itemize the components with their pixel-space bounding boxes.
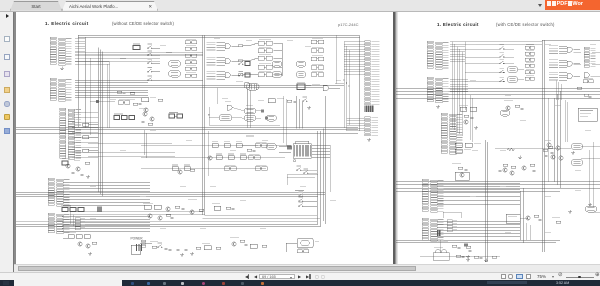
long bus lower B [16, 223, 318, 225]
CN3 stub wires [72, 111, 98, 113]
resistor R21 [196, 247, 201, 249]
p2 right verticals [553, 98, 555, 182]
resistor R27 [130, 92, 135, 94]
capacitor C11 [72, 172, 75, 173]
capacitor C7 [165, 248, 168, 249]
resistor R11 [247, 149, 252, 151]
p2 switch S5 [500, 79, 505, 82]
connector P2-CN3 tall [441, 113, 463, 154]
p2 vertical bundle [555, 81, 557, 101]
transistor P2Q7 [503, 168, 507, 172]
p2 resistor R9 [556, 221, 561, 223]
bottom cluster B1 [68, 235, 74, 239]
capacitor C5 [182, 208, 185, 209]
transistor Q1 [144, 108, 148, 112]
p2 box cluster [506, 214, 520, 223]
row input boxes [245, 62, 250, 66]
transistor P2Q1 [464, 120, 468, 124]
transistor Q4 [143, 112, 147, 116]
power connector PJ1 [131, 245, 141, 254]
svg-text:(with CE/DE selector switch): (with CE/DE selector switch) [496, 22, 555, 27]
switch S6 [303, 99, 308, 102]
capacitor C10 [123, 93, 126, 94]
part cluster P2: NOTE rows [74, 124, 81, 127]
stub stack bottom-left [141, 240, 146, 247]
loop wires lower [287, 174, 318, 176]
ground CN8 [367, 138, 371, 141]
relay RY9 [219, 115, 232, 121]
relay box B2 [258, 73, 272, 77]
boxes row under P1 [114, 116, 120, 120]
page 2 sheet [396, 11, 600, 265]
junction [208, 114, 209, 115]
switch S1 [148, 46, 153, 49]
capacitor C4 [142, 121, 145, 122]
transistor Q10 [232, 242, 236, 246]
CN5 drop [440, 240, 442, 253]
vertical bus pair [202, 36, 204, 215]
connector P2-CN2 [427, 77, 449, 103]
p2 capacitor C5 [533, 170, 536, 171]
resistor R1 [238, 45, 243, 47]
p2 relay RY6 [585, 206, 597, 212]
p2 capacitor C6 [539, 219, 542, 220]
gate wires [232, 108, 244, 111]
p2 resistor R10 [452, 245, 457, 247]
row wire B [141, 156, 285, 158]
loop connect right [205, 214, 317, 216]
relay box A1 [258, 41, 272, 45]
vertical wire x90 [89, 58, 91, 135]
p2 row group 2 [549, 59, 567, 67]
transistor Q6 [166, 207, 170, 211]
p2 resistor R14 [503, 164, 508, 166]
connector P2-CN4 [422, 179, 444, 212]
dark pins [261, 109, 264, 112]
scatter labels p2 [470, 43, 476, 46]
oval left wire [209, 117, 219, 119]
driver pair D2 [311, 49, 324, 53]
p2 resistor R3 [577, 87, 582, 89]
bus line 3 [16, 132, 358, 134]
J1 drop wire [329, 145, 331, 192]
resistor R18 [226, 207, 231, 209]
p2 ground B [588, 203, 592, 206]
lower band cluster L3 [214, 206, 221, 210]
row group 2 [207, 57, 226, 65]
p2 relay pair K6 [525, 77, 534, 80]
switch S2 [148, 53, 153, 56]
p2 vertical drops [525, 223, 527, 240]
relay pair RP1 [169, 114, 175, 118]
p2 capacitor C7 [458, 247, 461, 248]
p2 fan CN2 [450, 78, 468, 80]
p2 row group 1 [549, 45, 567, 54]
bus drops [216, 88, 218, 105]
relay box A2 [258, 49, 272, 53]
p2 oval RY4 wire left [495, 148, 571, 150]
resistor P2R1 [464, 115, 469, 117]
resistor R26 [117, 91, 122, 93]
bus cluster box [297, 84, 305, 90]
capacitor C1 [139, 103, 142, 104]
long bus lower A [16, 191, 325, 193]
switch S5 [148, 78, 153, 81]
mid vertical bus [77, 35, 79, 127]
left vertical bus [97, 48, 99, 193]
ground B3 [180, 253, 184, 256]
bottom wires [140, 242, 152, 244]
transistor P2Q2 [460, 173, 464, 177]
p2 switch S3 [500, 61, 505, 64]
p2 horizontal buses [396, 88, 600, 90]
p2 oval wires [518, 69, 524, 71]
p2 resistor R5 [548, 146, 553, 148]
transistor Q2 [208, 156, 212, 160]
p2 vertical bus left [451, 42, 453, 129]
switch S14 [239, 73, 244, 76]
p2 power unit box [578, 108, 597, 121]
p2 fan CN4 [437, 182, 520, 184]
resistor R12 [190, 169, 195, 171]
transistor Q11 [148, 214, 152, 218]
p2 relay RY5 [571, 160, 583, 166]
p2 vertical link right [588, 150, 590, 206]
mid pair M1 [255, 144, 267, 148]
p2 capacitor C10 [545, 155, 548, 156]
ground CN3c [86, 175, 90, 178]
capacitor P2C3 [521, 108, 524, 109]
mid link wires [88, 143, 172, 145]
resistor P2R2 [458, 167, 463, 169]
switch S10 [158, 245, 163, 248]
transistor Q13 [66, 164, 70, 168]
p2 box link [520, 217, 528, 219]
capacitor P2C2 [465, 169, 468, 170]
resistor R16 [175, 206, 180, 208]
p2 vertical right bus [484, 140, 486, 262]
row group 1 [207, 42, 226, 51]
resistor R28 [85, 162, 90, 164]
mid pair M2 [248, 156, 260, 160]
driver pair E2 [311, 73, 324, 77]
p2 oval out wires [581, 146, 600, 148]
transistor Q5 [150, 117, 154, 121]
transistor Q14 [76, 167, 80, 171]
loop under oval [209, 124, 280, 126]
resistor R23 [240, 240, 245, 242]
lower band cluster L1 [144, 205, 151, 209]
wire fan CN5 [62, 215, 150, 217]
J1 fan wires [312, 144, 330, 146]
relay contact K3 [185, 54, 197, 57]
border drop wire [335, 36, 337, 84]
p2 resistor R13 [543, 149, 548, 151]
svg-text:1. Electric circuit: 1. Electric circuit [437, 22, 479, 27]
p2 relay RY3 [500, 110, 510, 116]
transistor Q8 [78, 242, 82, 246]
p2 relay pair K3 [525, 58, 534, 61]
resistor R19 [92, 242, 97, 244]
nested loop right verticals [316, 131, 318, 224]
vertical pair mid-left [143, 130, 145, 155]
p2 gate G2 [567, 61, 572, 66]
CN6 bus vertical [343, 42, 345, 129]
p2 pair D3 [583, 80, 593, 83]
terminal row [62, 208, 68, 212]
jumper loop CN5 [443, 211, 461, 213]
gate G1 [225, 44, 230, 49]
wire into border [335, 83, 344, 85]
p2 relay pair K1 [525, 46, 534, 49]
resistor R15 [148, 123, 153, 125]
wire fan CN1 [75, 38, 85, 40]
p2 switch S4 [500, 70, 505, 73]
capacitor C3 [294, 101, 297, 102]
resistor R14 [158, 99, 163, 101]
p2 gnd B2 [484, 259, 488, 262]
ground T1 [307, 106, 311, 109]
gate cluster bottom [323, 86, 329, 91]
wires to CN8 [347, 117, 365, 119]
wire fan CN4 [63, 181, 150, 183]
p2 relay RY2 [507, 77, 518, 83]
motor M1 [297, 239, 313, 248]
resistor R20 [152, 246, 157, 248]
relay RY6 [296, 72, 306, 78]
ground P2-CN1 [436, 105, 440, 108]
p2 border top [542, 39, 600, 41]
p2 gate link wires [574, 51, 582, 53]
p2 switch feed wires [465, 48, 500, 50]
S11 wires [301, 169, 317, 171]
p2 res RB1 [456, 255, 461, 257]
switch S3 [148, 61, 153, 64]
p2 switch S1 [500, 46, 505, 49]
row group 3 [207, 71, 226, 79]
switch S4 [148, 69, 153, 72]
p2 relay RY1 [507, 67, 518, 73]
relay box A3 [258, 56, 272, 60]
transistor P2Q6 [522, 166, 526, 170]
transistor P2Q3 [506, 106, 510, 110]
scatter labels p1 [120, 57, 126, 60]
gate G3 [225, 73, 230, 78]
p2 relay pair K5 [525, 71, 534, 74]
p2 vertical x593 [592, 142, 594, 207]
p2 transistor QB [551, 155, 555, 159]
capacitor C6 [232, 208, 235, 209]
p2 gnd L1 [466, 255, 470, 258]
motor aux pair [297, 250, 309, 253]
p2 gnd U1 [518, 156, 522, 159]
bus join left [282, 96, 284, 143]
relay RY3 [272, 61, 282, 67]
p2 fan CN5 [437, 220, 520, 222]
sensor pair [118, 101, 130, 105]
connector CN1 [50, 37, 72, 65]
ground P2M1 [474, 126, 478, 129]
connector P2 key [437, 231, 441, 237]
transistor Q7 [190, 210, 194, 214]
bottom band wire p2 [420, 255, 500, 257]
p2 row group 3 [549, 72, 567, 80]
bottom cluster B4 [204, 246, 211, 250]
driver pair E1 [311, 66, 324, 70]
transistor P2Q8 [526, 216, 530, 220]
p2 cap CL1 [469, 250, 472, 251]
capacitor C9 [171, 217, 174, 218]
p2 switch S2 [500, 54, 505, 57]
p2 gnd B1 [466, 258, 470, 261]
resistor R22 [216, 247, 221, 249]
page 1 sheet [16, 11, 393, 265]
wire fan CN2 [75, 79, 148, 81]
wire x90-115 [90, 100, 115, 102]
component box F1 [133, 46, 140, 50]
p2 resistor R6 [530, 164, 535, 166]
bus join right [295, 96, 297, 129]
dark component small [96, 100, 99, 103]
p2 transistor QC [510, 171, 514, 175]
p2 cap CB1 [462, 257, 465, 258]
resistor R10 [133, 103, 138, 105]
relay contact K4 [185, 61, 197, 64]
p2 CN5 inline labels [447, 220, 452, 223]
resistor R2 [238, 60, 243, 62]
ground B1 [88, 252, 92, 255]
resistor R24 [262, 245, 267, 247]
row wire A [141, 144, 291, 146]
relay RY4 [272, 72, 282, 78]
p2 gate G1 [567, 47, 572, 52]
wires to CN6 [344, 41, 365, 43]
p2 cluster M1 [460, 107, 467, 111]
relay box B1 [258, 65, 272, 69]
relay contact K6 [185, 74, 197, 77]
relay contact K2 [185, 47, 197, 50]
svg-text:1. Electric circuit: 1. Electric circuit [45, 21, 89, 26]
transformer T1 [433, 250, 449, 260]
relay RY7 [266, 144, 277, 150]
switch S13 [239, 62, 244, 65]
terminal circle [293, 160, 295, 162]
label RLE-07L [246, 135, 254, 138]
switch S9 [299, 204, 304, 207]
p2 resistor R8 [534, 215, 539, 217]
svg-text:(without CE/DE selector switch: (without CE/DE selector switch) [112, 21, 174, 26]
connector CN5 [48, 213, 70, 234]
relay RY5 [296, 61, 306, 67]
p2 resistor R12 [584, 94, 589, 96]
switch S11 [297, 168, 302, 171]
ground [60, 67, 64, 70]
capacitor C8 [245, 244, 248, 245]
ground B3b [190, 252, 194, 255]
mid pair M3 [255, 167, 267, 171]
relay contact K5 [185, 67, 197, 70]
driver pair D1 [311, 40, 324, 44]
mid cluster row2 [216, 156, 222, 160]
wire web upper right [250, 43, 258, 46]
p2 vertical bus pair [541, 40, 543, 252]
transistor Q12 [158, 216, 162, 220]
capacitor P2C1 [471, 117, 474, 118]
p2 capacitor C9 [589, 96, 592, 97]
p2 ground A [568, 210, 572, 213]
resistor R25 [166, 214, 171, 216]
p2 fan CN1 [450, 41, 465, 43]
p2 relay RY4 [571, 144, 583, 150]
mid pair M4 [224, 167, 236, 171]
cluster under CN3 [62, 161, 68, 165]
bottom cluster B6 [250, 244, 257, 248]
connector CN8 [365, 117, 379, 136]
inline component W1 [287, 145, 292, 149]
relay RY10 [244, 108, 256, 114]
switch S8 [299, 199, 304, 202]
row wire C [141, 167, 266, 169]
page separator [393, 11, 395, 265]
capacitor [169, 249, 172, 250]
capacitor C12 [81, 174, 84, 175]
p2 relay pair K2 [525, 52, 534, 55]
capacitor C2 [253, 150, 256, 151]
transistor Q9 [86, 244, 90, 248]
driver pair D3 [311, 57, 324, 61]
resistor P2R4 [515, 105, 520, 107]
junction dots [343, 79, 349, 86]
capacitor [177, 249, 180, 250]
p2 wire x580 [580, 97, 600, 99]
CN5 inline labels [75, 218, 80, 221]
p2 res RB3 [492, 256, 497, 258]
p2 right bus vertical [547, 98, 549, 182]
drop wires x247 [246, 90, 248, 128]
loop bottom wires [70, 211, 203, 213]
transistor P2Q4 [556, 146, 560, 150]
connector CN4 [48, 178, 70, 206]
p2 relay pair K4 [525, 64, 534, 67]
relay contact K1 [185, 41, 197, 44]
p2 gate G4 [584, 73, 589, 78]
p2 res RB2 [474, 256, 479, 258]
p2 resistor R7 [511, 166, 516, 168]
switch S12 [304, 171, 309, 174]
p2 capacitor C4 [551, 152, 554, 153]
p2 cluster M2 [455, 143, 462, 147]
vertical link x209 [208, 131, 210, 176]
cluster T2 left [142, 98, 149, 102]
dark terminal block [97, 207, 102, 213]
gate on bus G7 [245, 83, 251, 88]
transistor P2Q5 [559, 156, 563, 160]
relay RY11 [244, 115, 256, 121]
connector P2-CN5 [422, 218, 444, 241]
cluster T1 [268, 99, 275, 103]
svg-text:p17C-244C: p17C-244C [338, 22, 359, 27]
p2 transistor QA [547, 143, 551, 147]
connector P2-CN1 [427, 41, 449, 69]
gate G4 [227, 105, 232, 110]
connector CN2 [50, 78, 72, 101]
relay RY1 [169, 61, 181, 68]
mid cluster row3 [172, 167, 178, 171]
p2 res RL1 [466, 246, 471, 248]
connector CN3 tall [60, 108, 82, 159]
bus rows mid [75, 52, 203, 54]
p2 cap CB2 [480, 258, 483, 259]
